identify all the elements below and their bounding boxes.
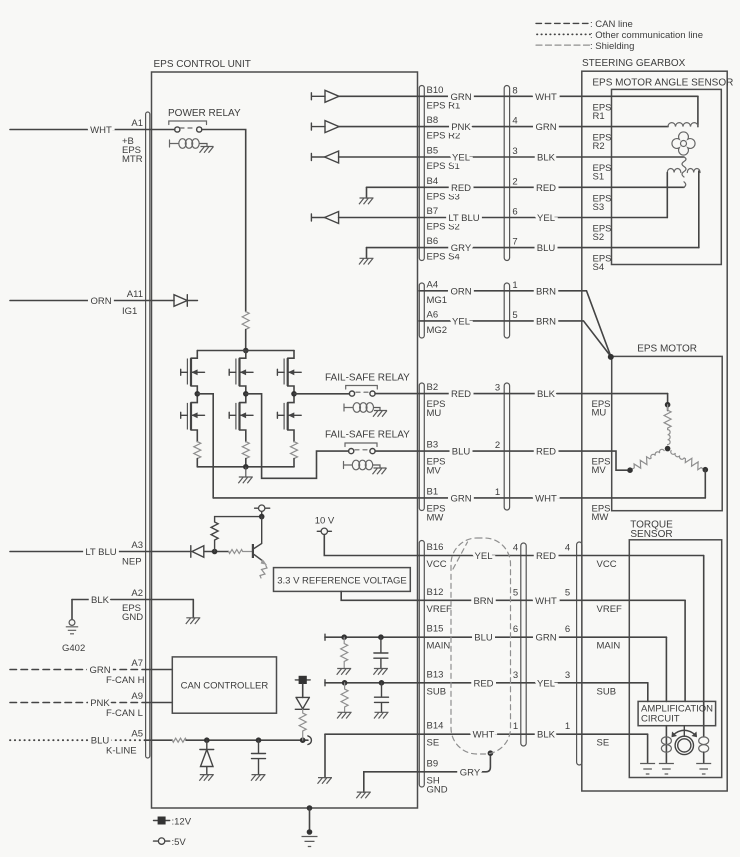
torque sensor right coil bbox=[699, 737, 709, 745]
resistor NEP pullup vertical bbox=[211, 517, 262, 552]
fail-safe relay 1 coil lead bbox=[344, 404, 353, 411]
transistor Q6 channel bbox=[287, 403, 289, 430]
transistor Q2 (low side U) drain bbox=[191, 394, 197, 403]
buffer U4 input tick bbox=[311, 214, 325, 221]
svg-text:B4: B4 bbox=[427, 176, 439, 187]
supply 5V symbol NEP bbox=[255, 508, 270, 516]
fail-safe relay 1 contact right bbox=[370, 391, 375, 396]
wire A5 bracket to resistor bbox=[146, 739, 172, 741]
wire A5 row K-LINE (dotted) bbox=[10, 739, 146, 741]
svg-text:B1: B1 bbox=[427, 486, 439, 497]
svg-text:S2: S2 bbox=[593, 232, 605, 243]
svg-text:MG2: MG2 bbox=[427, 325, 448, 336]
svg-text:4: 4 bbox=[565, 543, 570, 554]
torque connector bracket right half bbox=[577, 542, 582, 765]
svg-text:FAIL-SAFE RELAY: FAIL-SAFE RELAY bbox=[325, 430, 410, 441]
svg-text:K-LINE: K-LINE bbox=[106, 746, 137, 757]
torque sensor detector ring bbox=[683, 726, 685, 737]
svg-text:R2: R2 bbox=[593, 141, 605, 152]
wire B6 row EPS S4 bbox=[367, 247, 699, 249]
svg-text:WHT: WHT bbox=[535, 493, 557, 504]
svg-text:A11: A11 bbox=[127, 289, 143, 300]
svg-text:BLU: BLU bbox=[452, 447, 471, 458]
wire S4 vertical to right S coil bbox=[698, 171, 700, 248]
resolver R coil bbox=[668, 123, 698, 127]
svg-text:MAIN: MAIN bbox=[597, 641, 621, 652]
svg-text:BLK: BLK bbox=[537, 730, 556, 741]
ground B13 resistor bbox=[337, 712, 352, 718]
wire VREF vertical to amp box bbox=[684, 600, 686, 701]
svg-text:B14: B14 bbox=[427, 721, 444, 732]
diode D2 on NEP bbox=[191, 546, 212, 558]
buffer U2 (EPS R2 output) bbox=[325, 121, 339, 133]
svg-text:B10: B10 bbox=[427, 85, 444, 96]
wire 3.3V box to B12 row bbox=[341, 591, 419, 600]
ground C1 bbox=[251, 775, 266, 781]
resolver rotor (4-lobe) bbox=[672, 132, 695, 155]
buffer U1 (EPS R1 output) bbox=[325, 90, 339, 102]
resistor NEP base bbox=[229, 550, 252, 554]
ground chassis bottom bbox=[302, 837, 318, 847]
AMPLIFICATION CIRCUIT box bbox=[638, 701, 716, 725]
wire B16 row VCC bbox=[419, 555, 704, 557]
svg-text:YEL: YEL bbox=[475, 551, 493, 562]
resistor shunt W bbox=[291, 442, 298, 459]
diode D3 zener to ground bbox=[200, 740, 214, 774]
svg-text:B3: B3 bbox=[427, 440, 439, 451]
svg-text:2: 2 bbox=[495, 440, 500, 451]
transistor Q2 gate lead bbox=[181, 412, 188, 418]
CAN CONTROLLER box bbox=[172, 657, 276, 713]
wire B14 row SE bbox=[325, 733, 648, 735]
svg-text:BLU: BLU bbox=[474, 633, 493, 644]
svg-text:A4: A4 bbox=[427, 279, 439, 290]
fail-safe relay 2 armature bar bbox=[345, 443, 377, 447]
ground B4 bbox=[359, 198, 374, 204]
buffer U3 input tick bbox=[311, 154, 325, 161]
fail-safe relay 1 coil bbox=[353, 403, 360, 413]
junction node K2 bbox=[256, 737, 262, 743]
svg-text:B16: B16 bbox=[427, 542, 444, 553]
svg-text:GRN: GRN bbox=[535, 633, 556, 644]
wire NEP to junction bbox=[212, 551, 229, 553]
svg-text:F-CAN L: F-CAN L bbox=[106, 708, 143, 719]
fail-safe relay 2 coil lead bbox=[344, 462, 353, 469]
svg-text:RED: RED bbox=[473, 678, 493, 689]
shield stadium around torque wires bbox=[451, 538, 511, 754]
transistor Q4 (low side V) drain bbox=[240, 394, 246, 403]
resistor B13 filter bbox=[341, 683, 348, 713]
wire B9 row SH GND bbox=[419, 753, 490, 772]
svg-text:MU: MU bbox=[592, 408, 607, 419]
ground D3 bbox=[199, 775, 214, 781]
transistor Q7 NEP base bar bbox=[252, 544, 254, 558]
fail-safe relay 2 coil bbox=[352, 460, 359, 470]
svg-text:8: 8 bbox=[512, 85, 517, 96]
transistor Q1 channel bbox=[190, 358, 192, 386]
svg-text:S4: S4 bbox=[593, 262, 605, 273]
connector bracket B sensor group bbox=[419, 86, 424, 261]
ground C3 bbox=[374, 712, 389, 718]
svg-text:BRN: BRN bbox=[536, 316, 556, 327]
svg-text:1: 1 bbox=[513, 721, 518, 732]
transistor Q3 (high side V) drain bbox=[240, 351, 246, 359]
motor winding U (coil loops and resistor) bbox=[664, 405, 671, 445]
svg-text:GND: GND bbox=[427, 784, 448, 795]
svg-text:BLK: BLK bbox=[91, 595, 110, 606]
wire B13 left tick bbox=[324, 680, 326, 686]
power relay contact right bbox=[197, 127, 202, 132]
svg-text:3: 3 bbox=[512, 146, 517, 157]
svg-text:NEP: NEP bbox=[122, 557, 142, 568]
junction node K1 bbox=[204, 737, 210, 743]
wire A2 to G402 bbox=[71, 600, 73, 620]
transistor Q2 channel bbox=[190, 403, 192, 430]
transistor Q2 gate bar bbox=[186, 403, 188, 430]
wire B12 row VREF bbox=[419, 599, 685, 601]
wire relay 1 to connector B2 bbox=[375, 393, 667, 395]
svg-text:VCC: VCC bbox=[597, 559, 617, 570]
transistor Q4 channel bbox=[238, 403, 240, 430]
svg-text:MAIN: MAIN bbox=[427, 641, 451, 652]
connector bracket B torque group bbox=[419, 541, 424, 788]
svg-text:RED: RED bbox=[451, 389, 471, 400]
3.3 V REFERENCE VOLTAGE box bbox=[274, 568, 411, 592]
wire S2 vertical to left S coil bbox=[666, 173, 668, 218]
ground C2 bbox=[373, 669, 388, 675]
svg-text:A2: A2 bbox=[131, 588, 143, 599]
wire B4 row EPS S3 bbox=[367, 186, 685, 188]
legend CAN line sample bbox=[536, 22, 590, 24]
wire B5 row EPS S1 bbox=[339, 156, 684, 158]
svg-text:S1: S1 bbox=[593, 172, 605, 183]
wire A7 row F-CAN H (dashed) bbox=[10, 669, 146, 671]
transistor Q6 gate bar bbox=[283, 403, 285, 430]
svg-text:MTR: MTR bbox=[122, 154, 143, 165]
wire resistor to bridge rail bbox=[245, 330, 247, 351]
svg-text:A6: A6 bbox=[427, 309, 439, 320]
diode D1 on IG1 bbox=[174, 295, 198, 307]
transistor Q3 source lead bbox=[240, 386, 246, 394]
svg-text:: Shielding: : Shielding bbox=[590, 41, 634, 52]
junction node shield drain bbox=[488, 750, 494, 756]
bottom legend 12V symbol bbox=[154, 820, 170, 822]
resistor B15 filter bbox=[341, 637, 348, 668]
transistor Q7 emitter bbox=[254, 555, 264, 562]
wire B15 left tick bbox=[324, 634, 326, 640]
wire amp box to torque coil ground bbox=[665, 726, 667, 763]
svg-text:MV: MV bbox=[592, 465, 607, 476]
svg-text:CIRCUIT: CIRCUIT bbox=[641, 713, 680, 724]
ground B9 internal bbox=[356, 792, 371, 798]
wire SE vertical to ground bbox=[647, 734, 649, 762]
fail-safe relay 2 coil ground bbox=[373, 465, 387, 474]
junction node motor V end bbox=[627, 467, 633, 473]
wire motor W to B1 row bbox=[704, 470, 706, 498]
svg-text:YEL: YEL bbox=[537, 678, 555, 689]
ground B6 bbox=[359, 258, 374, 264]
capacitor C2 B15 filter bbox=[374, 637, 388, 668]
ground torque SE bbox=[640, 764, 655, 775]
svg-text:WHT: WHT bbox=[90, 125, 112, 136]
wire B8 row EPS R2 bbox=[339, 126, 669, 128]
connector bracket A (control unit left) bbox=[146, 112, 150, 758]
junction node phase U bbox=[195, 391, 201, 397]
STEERING GEARBOX box bbox=[582, 71, 727, 791]
ground bridge bbox=[238, 467, 253, 483]
wire A3 row NEP bbox=[10, 551, 191, 553]
svg-text:A3: A3 bbox=[131, 540, 143, 551]
fail-safe relay 2 contact right bbox=[370, 449, 375, 454]
wire 10V to B16 row bbox=[324, 535, 419, 556]
svg-text:1: 1 bbox=[512, 280, 517, 291]
TORQUE SENSOR box bbox=[629, 540, 721, 778]
svg-text:: Other communication line: : Other communication line bbox=[590, 30, 703, 41]
transistor Q1 source arrow bbox=[191, 371, 205, 373]
EPS MOTOR box bbox=[612, 356, 723, 510]
svg-text:B13: B13 bbox=[427, 669, 444, 680]
svg-text:YEL: YEL bbox=[452, 153, 470, 164]
svg-text:BLU: BLU bbox=[537, 243, 556, 254]
junction node NEP collector top bbox=[259, 514, 265, 520]
svg-text:MG1: MG1 bbox=[427, 295, 448, 306]
resistor on 12V rail bbox=[242, 312, 249, 330]
svg-text:YEL: YEL bbox=[537, 213, 555, 224]
transistor Q5 gate lead bbox=[277, 369, 284, 375]
motor winding W (coil loops and resistor) bbox=[669, 448, 705, 473]
transistor Q3 gate lead bbox=[229, 369, 236, 375]
svg-text:CAN CONTROLLER: CAN CONTROLLER bbox=[181, 681, 269, 692]
wire A7 bracket to CAN controller bbox=[146, 669, 172, 671]
svg-text:G402: G402 bbox=[62, 643, 85, 654]
svg-text:B6: B6 bbox=[427, 236, 439, 247]
legend shielding sample bbox=[536, 44, 590, 46]
gearbox connector bracket sensor group bbox=[504, 86, 509, 261]
transistor Q5 source arrow bbox=[288, 371, 302, 373]
svg-text:B12: B12 bbox=[427, 587, 444, 598]
connector bracket B MG group bbox=[419, 283, 424, 338]
wire box bottom to chassis ground bbox=[309, 808, 311, 832]
svg-text:3.3 V REFERENCE VOLTAGE: 3.3 V REFERENCE VOLTAGE bbox=[277, 576, 407, 587]
ground G402 bbox=[69, 620, 75, 626]
resolver R winding vertical from R1 bbox=[697, 96, 699, 126]
transistor Q5 (high side W) drain bbox=[288, 351, 294, 359]
wire A2 internal to ground bbox=[192, 600, 194, 618]
svg-text:RED: RED bbox=[536, 183, 556, 194]
svg-text:3: 3 bbox=[565, 670, 570, 681]
ground torque amp bbox=[659, 764, 674, 775]
wire B6 elbow to ground bbox=[366, 248, 368, 259]
transistor Q6 source arrow bbox=[288, 414, 302, 416]
svg-text:EPS CONTROL UNIT: EPS CONTROL UNIT bbox=[154, 59, 251, 70]
transistor Q7 collector bbox=[254, 517, 262, 549]
transistor Q7 emitter arrow and tail bbox=[260, 562, 267, 579]
transistor Q5 gate bar bbox=[283, 359, 285, 385]
svg-text:MU: MU bbox=[427, 408, 442, 419]
svg-text:LT BLU: LT BLU bbox=[448, 213, 479, 224]
capacitor C1 K-line bbox=[252, 740, 266, 774]
wire S3 hook to coupling bbox=[684, 182, 686, 188]
wire relay 2 to connector B3 bbox=[375, 451, 627, 470]
wire shunt U to rail bbox=[196, 459, 198, 467]
svg-text:SUB: SUB bbox=[597, 686, 617, 697]
junction node B13 R bbox=[342, 680, 348, 686]
junction node B15 C bbox=[378, 634, 384, 640]
svg-text:MW: MW bbox=[592, 512, 609, 523]
wire B13 row SUB bbox=[325, 682, 648, 684]
svg-text:2: 2 bbox=[512, 176, 517, 187]
wire B10 row EPS R1 bbox=[339, 95, 698, 97]
svg-text:5: 5 bbox=[512, 310, 517, 321]
svg-text:6: 6 bbox=[512, 207, 517, 218]
svg-text::5V: :5V bbox=[172, 837, 187, 848]
svg-text:SE: SE bbox=[427, 738, 440, 749]
svg-text:PNK: PNK bbox=[451, 122, 471, 133]
power relay contact left bbox=[175, 127, 180, 132]
svg-text:SENSOR: SENSOR bbox=[630, 529, 672, 540]
junction node chassis bbox=[307, 829, 313, 835]
wire VCC vertical to torque coil bbox=[703, 556, 705, 737]
junction node B13 C bbox=[379, 680, 385, 686]
svg-text:A5: A5 bbox=[131, 729, 143, 740]
wire shunt W to rail bbox=[293, 459, 295, 467]
wire B7 row EPS S2 bbox=[339, 217, 668, 219]
ground torque coil bbox=[696, 764, 711, 775]
wire phase U takeoff to B1 row bbox=[197, 394, 213, 498]
supply 10V symbol bbox=[317, 530, 331, 532]
svg-text:5: 5 bbox=[513, 587, 518, 598]
svg-text:EPS MOTOR: EPS MOTOR bbox=[637, 343, 697, 354]
resistor shunt U bbox=[194, 442, 201, 459]
junction node motor center bbox=[665, 446, 671, 452]
resolver coupling squiggle S1 bbox=[682, 157, 686, 177]
fail-safe relay 2 contact left bbox=[349, 449, 354, 454]
svg-text:MV: MV bbox=[427, 466, 442, 477]
svg-text:A1: A1 bbox=[131, 118, 143, 129]
motor winding U vertical bbox=[667, 394, 669, 411]
bridge top rail bbox=[197, 350, 294, 352]
resistor K-line bbox=[172, 738, 186, 742]
wire phase V takeoff bbox=[246, 394, 349, 479]
svg-text:ORN: ORN bbox=[90, 296, 111, 307]
ground B14 internal bbox=[318, 778, 333, 784]
svg-text:BLK: BLK bbox=[537, 153, 556, 164]
wire shunt V to rail bbox=[245, 459, 247, 467]
svg-text:MW: MW bbox=[427, 512, 444, 523]
ground A2 internal bbox=[186, 618, 201, 624]
wire A11 row IG1 bbox=[10, 300, 174, 302]
wire phase W takeoff bbox=[294, 393, 349, 395]
svg-text:B7: B7 bbox=[427, 206, 439, 217]
svg-text:ORN: ORN bbox=[450, 286, 471, 297]
resistor 12V pullup bbox=[299, 709, 306, 740]
svg-text:6: 6 bbox=[565, 624, 570, 635]
svg-text:GRY: GRY bbox=[460, 767, 481, 778]
wire B4 elbow to ground bbox=[366, 187, 368, 198]
legend other-communication-line sample bbox=[537, 33, 590, 35]
transistor Q1 source lead bbox=[191, 386, 197, 394]
svg-text:VREF: VREF bbox=[427, 604, 453, 615]
svg-text:B9: B9 bbox=[427, 758, 439, 769]
junction node K3 bbox=[300, 737, 306, 743]
svg-text:SE: SE bbox=[597, 738, 610, 749]
svg-text:WHT: WHT bbox=[473, 730, 495, 741]
connector bracket B motor group bbox=[419, 383, 424, 511]
resolver rotor center bbox=[681, 141, 687, 147]
transistor Q1 gate bar bbox=[186, 359, 188, 385]
svg-text:R1: R1 bbox=[593, 111, 605, 122]
power relay coil bbox=[179, 139, 186, 149]
junction node MG at motor corner bbox=[608, 354, 614, 360]
transistor Q4 source arrow bbox=[240, 414, 254, 416]
wire K-line end hook bbox=[308, 736, 312, 745]
transistor Q3 gate bar bbox=[235, 359, 237, 385]
shield inner diagonal bbox=[453, 542, 468, 569]
junction node B15 R bbox=[341, 634, 347, 640]
wire MAIN vertical to amp box bbox=[665, 637, 667, 701]
wire B15 row MAIN bbox=[325, 636, 666, 638]
EPS CONTROL UNIT box bbox=[152, 72, 418, 808]
torque sensor rotation arrow bbox=[673, 730, 697, 735]
transistor Q6 (low side W) drain bbox=[288, 394, 294, 403]
buffer U1 input tick bbox=[311, 93, 325, 100]
svg-text:A7: A7 bbox=[131, 658, 143, 669]
wire A9 bracket to CAN controller bbox=[146, 702, 172, 704]
fail-safe relay 1 armature bar bbox=[346, 386, 378, 390]
junction node bridge top bbox=[243, 348, 249, 354]
wire A4 row MG1 bbox=[419, 291, 611, 357]
wire B1 row to connector bbox=[213, 497, 705, 499]
torque connector bracket left half bbox=[521, 543, 526, 746]
junction node box bottom bbox=[307, 805, 313, 811]
svg-text:VCC: VCC bbox=[427, 559, 447, 570]
wire A9 row F-CAN L (dashed) bbox=[10, 702, 146, 704]
wire 12V to diode bbox=[302, 684, 304, 697]
resistor shunt V bbox=[242, 442, 249, 459]
fail-safe relay 1 contact left bbox=[349, 391, 354, 396]
svg-text:BLK: BLK bbox=[537, 389, 556, 400]
svg-text::12V: :12V bbox=[172, 817, 192, 828]
svg-text:EPS MOTOR ANGLE SENSOR: EPS MOTOR ANGLE SENSOR bbox=[592, 77, 733, 88]
svg-text:10 V: 10 V bbox=[315, 516, 335, 527]
transistor Q3 source arrow bbox=[240, 371, 254, 373]
junction node motor W end bbox=[703, 467, 709, 473]
svg-text:GRN: GRN bbox=[450, 493, 471, 504]
bridge bottom rail bbox=[197, 466, 294, 468]
svg-text:BRN: BRN bbox=[473, 596, 493, 607]
junction node phase W bbox=[291, 391, 297, 397]
svg-text:B15: B15 bbox=[427, 624, 444, 635]
svg-text:VREF: VREF bbox=[597, 604, 623, 615]
buffer U3 (EPS S1 input) bbox=[325, 151, 339, 163]
svg-text:7: 7 bbox=[512, 237, 517, 248]
buffer U2 input tick bbox=[311, 123, 325, 130]
wire A1 row +B bbox=[10, 129, 175, 131]
svg-text:B2: B2 bbox=[427, 382, 439, 393]
svg-text:1: 1 bbox=[495, 487, 500, 498]
svg-text:5: 5 bbox=[565, 587, 570, 598]
wire B9 to internal ground bbox=[364, 772, 419, 792]
svg-text:: CAN line: : CAN line bbox=[590, 19, 633, 30]
capacitor C3 B13 filter bbox=[375, 683, 389, 713]
wire SUB vertical to amp box bbox=[647, 683, 649, 702]
wire power relay to 12V rail bbox=[202, 130, 246, 312]
svg-text:B8: B8 bbox=[427, 115, 439, 126]
svg-text:YEL: YEL bbox=[452, 316, 470, 327]
wire K-line bus bbox=[186, 739, 308, 741]
svg-text:LT BLU: LT BLU bbox=[85, 547, 116, 558]
bottom legend 5V symbol bbox=[154, 840, 170, 842]
